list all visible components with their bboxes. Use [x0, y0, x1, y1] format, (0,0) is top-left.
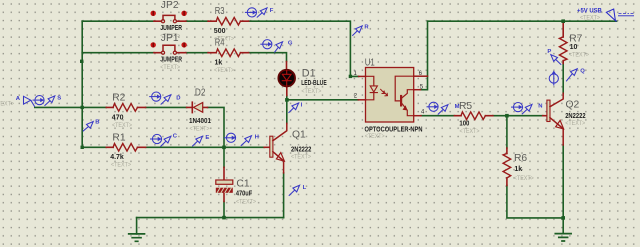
wire JP2 to R3 [186, 20, 208, 22]
svg-text:JP1: JP1 [161, 33, 179, 44]
probe G [260, 40, 293, 53]
svg-text:R3: R3 [215, 6, 225, 17]
resistor R6 [503, 148, 534, 185]
probe L [289, 185, 307, 196]
node stray junction on left bus [80, 60, 83, 63]
node R7 top junction overlay [562, 20, 565, 23]
wire junction down to R6 [506, 116, 508, 148]
node R2 row junction [81, 106, 84, 109]
probe E [192, 135, 209, 147]
wire Q1 emitter down [283, 173, 285, 218]
wire R1 to Q1 base [146, 146, 265, 148]
wire R2 to D2 [146, 106, 187, 108]
probe N [511, 103, 542, 115]
jumper JP1 [151, 33, 187, 71]
svg-text:R2: R2 [112, 92, 125, 103]
probe F [245, 8, 274, 18]
wire left vertical bus [81, 21, 83, 147]
svg-text:<TEXT>: <TEXT> [565, 120, 585, 127]
svg-text:4.7k: 4.7k [110, 154, 124, 161]
svg-text:<TEXT>: <TEXT> [160, 64, 180, 71]
svg-text:LED-BLUE: LED-BLUE [301, 80, 327, 87]
wire bottom ground rail left [137, 217, 284, 219]
resistor R1 [106, 133, 145, 169]
wire Q2 emitter down to ground [562, 145, 564, 218]
svg-text:C: C [173, 134, 178, 140]
wire row1 left to JP2 [82, 20, 154, 22]
probe H [224, 133, 259, 146]
svg-text:<TEXT>: <TEXT> [301, 88, 321, 95]
LED D1 LED-BLUE [278, 62, 327, 96]
wire C1 bottom to ground rail [223, 201, 225, 217]
node R7 top junction [561, 19, 565, 23]
svg-text:<TEXT>: <TEXT> [580, 14, 600, 21]
svg-text:470: 470 [112, 114, 124, 121]
svg-text:R5: R5 [459, 101, 472, 112]
wire U1 pin4 to R5 [421, 115, 454, 117]
node cross junction R1 row [222, 146, 226, 150]
probe B [83, 119, 100, 131]
svg-text:A: A [16, 96, 21, 102]
probe D [149, 92, 180, 105]
svg-text:R6: R6 [514, 153, 527, 164]
wire R4 to D1 top [249, 53, 287, 62]
svg-text:<TEXT>: <TEXT> [365, 133, 385, 140]
svg-text:R1: R1 [112, 133, 125, 144]
svg-text:Q2: Q2 [566, 100, 580, 111]
ground right [555, 218, 571, 241]
wire R7 bottom green [562, 64, 564, 94]
svg-text:1k: 1k [215, 59, 223, 66]
svg-text:JP2: JP2 [161, 0, 179, 11]
svg-text:<TEXT>: <TEXT> [236, 199, 256, 206]
resistor R5 [454, 101, 492, 135]
svg-text:100: 100 [459, 120, 469, 127]
svg-text:P: P [547, 49, 551, 55]
terminal +5V USB power [577, 7, 634, 21]
svg-text:<TEXT>: <TEXT> [190, 125, 210, 132]
probe I [289, 102, 303, 113]
svg-text:JUMPER: JUMPER [160, 57, 182, 64]
svg-text:D2: D2 [195, 88, 206, 99]
node right ground junction [561, 216, 565, 220]
wire R5 to Q2 base [493, 115, 543, 117]
resistor R7 [559, 21, 589, 63]
wire +5V rail [428, 20, 617, 22]
terminal A input [16, 96, 35, 107]
svg-text:D: D [176, 96, 180, 102]
probe C [150, 134, 178, 147]
svg-text:R4: R4 [215, 38, 225, 49]
svg-text:470uF: 470uF [236, 190, 253, 197]
node C1 rail junction [222, 216, 226, 220]
svg-text:500: 500 [214, 28, 226, 35]
wire JP1 to R4 [186, 52, 208, 54]
svg-text:F: F [270, 8, 274, 14]
transistor Q1 2N2222 [264, 123, 311, 172]
svg-text:<TEXT>: <TEXT> [0, 101, 14, 108]
svg-text:1k: 1k [514, 166, 522, 173]
svg-text:R7: R7 [569, 34, 582, 45]
wire row2 left to JP1 [82, 52, 154, 54]
wire input terminal to R2 [35, 106, 107, 108]
probe S current circle [33, 96, 45, 105]
svg-text:H: H [255, 135, 259, 141]
svg-text:C1: C1 [236, 179, 249, 190]
wire D1 bottom to U1 pin2 [287, 96, 359, 100]
wire D2 to corner down to R1 row [208, 107, 225, 147]
svg-text:<TEXT>: <TEXT> [112, 122, 132, 129]
svg-text:E: E [205, 135, 209, 141]
svg-text:M: M [455, 104, 460, 110]
resistor R3 [208, 6, 249, 42]
jumper JP2 [151, 0, 187, 40]
svg-text:G: G [288, 41, 293, 47]
svg-text:<TEXT>: <TEXT> [460, 128, 480, 135]
svg-text:1N4001: 1N4001 [189, 118, 211, 125]
wire D1 junction down to Q1 collector [286, 100, 288, 124]
svg-text:Q1: Q1 [292, 130, 306, 141]
node D1 junction [285, 98, 289, 102]
wire junction down to C1 [223, 147, 225, 167]
svg-text:<TEXT>: <TEXT> [111, 162, 131, 169]
resistor R2 [106, 92, 145, 129]
svg-text:10: 10 [570, 44, 578, 51]
svg-text:S: S [57, 95, 61, 101]
wire R6 bottom to right ground rail [507, 185, 563, 218]
probe current vertical near R7 [549, 72, 558, 86]
svg-text:+5V USB: +5V USB [577, 7, 602, 14]
node R1 row left junction [81, 146, 84, 149]
wire R1 row left [82, 146, 106, 148]
svg-text:L: L [303, 185, 307, 191]
svg-text:B: B [95, 119, 99, 125]
node U1 pin1 corner [349, 75, 352, 78]
probe Q [566, 68, 585, 81]
probe S voltage arrow [45, 95, 62, 105]
svg-text:D1: D1 [302, 68, 316, 80]
svg-text:JUMPER: JUMPER [160, 25, 182, 32]
svg-text:U1: U1 [365, 57, 375, 68]
probe R [352, 24, 369, 36]
svg-text:R: R [364, 24, 369, 30]
ground left [129, 218, 145, 242]
optocoupler U1 box [354, 57, 428, 140]
probe P [547, 49, 561, 65]
svg-text:N: N [538, 104, 542, 110]
resistor R4 [208, 38, 249, 74]
capacitor C1 470uF [216, 167, 256, 205]
transistor Q2 2N2222 [543, 93, 586, 145]
svg-text:<TEXT>: <TEXT> [514, 175, 534, 182]
probe M [427, 102, 460, 114]
wire right vertical to U1 pin5/pin6 [420, 21, 427, 90]
svg-text:<TEXT>: <TEXT> [291, 153, 311, 160]
wire R3 to U1 pin1 corner [249, 21, 359, 76]
node R5 R6 junction [505, 114, 509, 118]
svg-text:<TEXT>: <TEXT> [214, 67, 234, 74]
svg-text:Q: Q [580, 68, 585, 74]
svg-text:<TEXT>: <TEXT> [569, 52, 589, 59]
diode D2 1N4001 [187, 88, 211, 133]
